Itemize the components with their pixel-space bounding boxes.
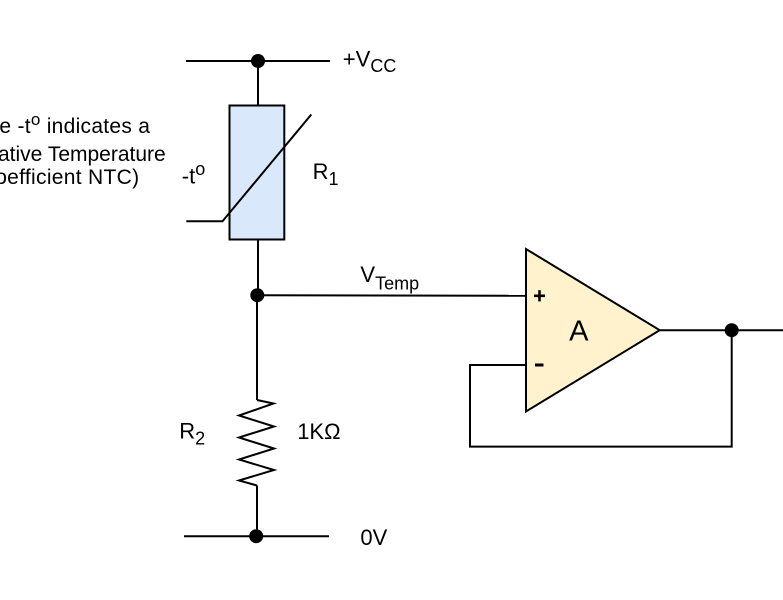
node: Vtemp junction dot bbox=[250, 288, 264, 302]
wire: +Vcc top rail bbox=[186, 60, 330, 62]
wire: Vtemp node to op-amp + input bbox=[257, 294, 526, 297]
op-amp U1 body bbox=[526, 249, 660, 412]
wire: thermistor bottom to Vtemp node bbox=[257, 240, 259, 296]
thermistor R1 diagonal stroke bbox=[186, 115, 311, 222]
wire: 0V bottom rail bbox=[184, 535, 329, 537]
svg-text:+VCC: +VCC bbox=[343, 46, 397, 76]
node: output junction dot bbox=[725, 323, 739, 337]
svg-text:1KΩ: 1KΩ bbox=[297, 419, 340, 444]
wire: Vtemp node down to resistor R2 bbox=[256, 295, 258, 400]
svg-text:R1: R1 bbox=[313, 159, 339, 189]
node: junction dot on 0V rail bbox=[249, 529, 263, 543]
wire: resistor R2 to 0V rail bbox=[256, 486, 258, 537]
resistor R2 zigzag bbox=[239, 400, 274, 486]
svg-text:oefficient NTC): oefficient NTC) bbox=[0, 166, 139, 189]
wire: op-amp output bbox=[660, 329, 783, 331]
wire: feedback loop from - input to output node bbox=[470, 330, 732, 446]
svg-text:A: A bbox=[569, 315, 589, 347]
op-amp + input marker bbox=[534, 290, 545, 301]
wire: +Vcc rail to thermistor top bbox=[257, 61, 259, 106]
thermistor R1 body bbox=[230, 106, 285, 240]
node: junction dot on +Vcc rail bbox=[251, 54, 265, 68]
op-amp - input marker bbox=[535, 364, 544, 367]
svg-text:VTemp: VTemp bbox=[360, 262, 419, 294]
svg-text:R2: R2 bbox=[179, 419, 205, 449]
svg-text:ative Temperature: ative Temperature bbox=[0, 143, 166, 166]
svg-text:-to: -to bbox=[182, 159, 205, 189]
svg-text:e -to indicates a: e -to indicates a bbox=[0, 110, 150, 138]
svg-text:0V: 0V bbox=[360, 525, 387, 550]
